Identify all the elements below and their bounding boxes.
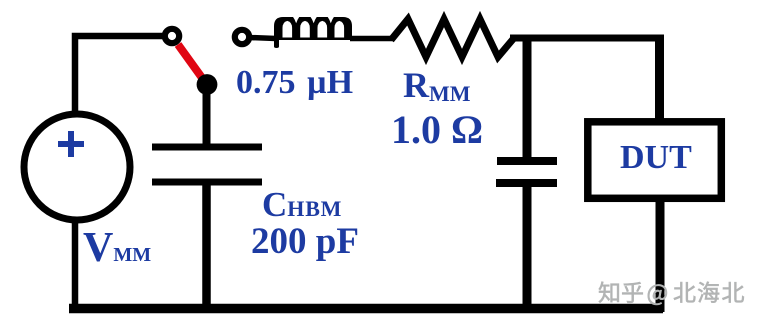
switch red arm <box>178 45 203 79</box>
switch terminal circle right (inductor input) <box>235 30 249 44</box>
wire: top rail resistor to right corner <box>510 35 664 42</box>
wire: right vertical down to DUT <box>655 35 664 122</box>
capacitor 2 plates <box>497 157 557 165</box>
resistor RMM zigzag <box>391 19 514 57</box>
wire: capacitor 2 to bottom bus <box>523 183 532 312</box>
wire: dot to capacitor C_HBM <box>203 83 211 150</box>
svg-text:DUT: DUT <box>620 139 692 176</box>
wire: C_HBM to bottom bus <box>202 182 211 312</box>
switch terminal circle left <box>165 29 179 43</box>
wire: inductor to resistor <box>350 36 393 42</box>
wire: DUT to bottom bus <box>656 198 665 312</box>
wire: left vertical top (source to top rail) <box>75 36 164 114</box>
watermark zhihu <box>599 282 744 305</box>
voltage source VMM circle <box>24 114 130 220</box>
capacitor C_HBM plates <box>152 144 262 151</box>
svg-text:0.75 µH: 0.75 µH <box>236 64 353 101</box>
plus sign of source <box>58 131 84 157</box>
inductor coil 0.75uH <box>274 17 352 49</box>
svg-text:200 pF: 200 pF <box>251 221 359 262</box>
wire: left vertical bottom (source to bottom bus) <box>72 220 79 312</box>
switch pole dot <box>197 74 218 95</box>
svg-text:1.0 Ω: 1.0 Ω <box>391 107 483 152</box>
DUT box <box>588 122 722 199</box>
wire: junction down to capacitor 2 <box>523 38 532 160</box>
wire: terminal to inductor <box>249 38 276 39</box>
wire: bottom bus <box>69 304 663 314</box>
